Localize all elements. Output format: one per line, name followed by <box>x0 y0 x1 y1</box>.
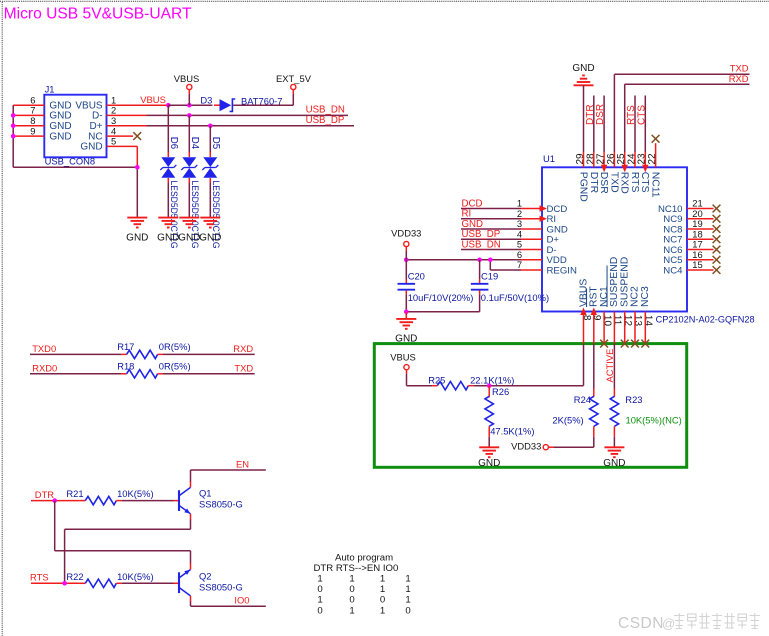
title text <box>4 6 193 23</box>
svg-text:ACTIVE: ACTIVE <box>604 349 615 383</box>
ground PGND top <box>572 63 594 85</box>
svg-text:VBUS: VBUS <box>390 352 416 363</box>
IC U1 bottom pin numbers <box>581 315 654 327</box>
TVS diode D4 LESD5D5.0CT1G <box>181 137 200 249</box>
wire VBUS to R25 <box>407 385 438 387</box>
svg-text:D4: D4 <box>189 137 200 150</box>
svg-text:8: 8 <box>581 315 592 321</box>
svg-text:VBUS: VBUS <box>140 94 166 105</box>
svg-text:0: 0 <box>317 605 322 616</box>
net label DSR pin27 <box>595 96 607 173</box>
net label RXD wire <box>158 343 255 354</box>
svg-text:C20: C20 <box>408 270 425 281</box>
node RTS junction <box>62 581 67 586</box>
svg-text:0R(5%): 0R(5%) <box>159 341 191 352</box>
net label ACTIVE pin11 <box>604 312 615 397</box>
no-connect pin12 <box>621 312 629 348</box>
net label USB_DP pin4 <box>461 229 542 240</box>
svg-text:Micro USB 5V&USB-UART: Micro USB 5V&USB-UART <box>4 6 193 23</box>
net label DTR wire <box>31 489 80 501</box>
svg-text:R25: R25 <box>428 375 445 386</box>
svg-text:TXD: TXD <box>608 172 619 193</box>
ground C20 <box>395 312 417 345</box>
resistor R21 <box>66 488 179 505</box>
svg-text:1: 1 <box>405 584 410 595</box>
svg-text:47.5K(1%): 47.5K(1%) <box>490 425 534 436</box>
wire R25 to pin8 <box>468 385 583 387</box>
svg-text:BAT760-7: BAT760-7 <box>241 96 283 107</box>
resistor R26 <box>485 386 534 447</box>
svg-text:Q2: Q2 <box>199 571 212 582</box>
wire VDD net <box>406 259 542 261</box>
no-connect U1 right pins NC4-NC10 <box>687 205 720 274</box>
svg-text:CTS: CTS <box>639 172 650 193</box>
svg-text:2: 2 <box>111 105 116 116</box>
svg-text:NC11: NC11 <box>649 172 660 198</box>
connector J1 pin names <box>49 101 103 153</box>
svg-text:NC3: NC3 <box>640 286 651 307</box>
svg-text:Auto program: Auto program <box>335 552 393 563</box>
ground D6 <box>157 218 179 244</box>
svg-text:R17: R17 <box>117 341 134 352</box>
ground D4 <box>178 218 200 244</box>
svg-text:R21: R21 <box>66 488 83 499</box>
highlight box (auto-program circuit) <box>374 344 686 468</box>
resistor R25 <box>428 375 514 390</box>
node J1 bus junctions <box>11 113 16 138</box>
svg-text:R24: R24 <box>574 394 591 405</box>
TVS diode D5 LESD5D5.0CT1G <box>202 137 221 249</box>
transistor Q2 SS8050-G <box>179 563 243 602</box>
svg-text:RTS: RTS <box>30 572 49 583</box>
svg-text:USB_DP: USB_DP <box>306 115 345 126</box>
resistor R17 <box>117 341 190 359</box>
table truth values <box>317 574 410 617</box>
svg-text:2K(5%): 2K(5%) <box>552 414 583 425</box>
svg-text:U1: U1 <box>543 153 555 164</box>
svg-text:GND: GND <box>178 233 200 244</box>
ground R26 <box>478 447 500 469</box>
svg-text:USB_DN: USB_DN <box>462 239 501 250</box>
resistor R22 <box>66 571 179 588</box>
wire VBUS to D3 <box>168 104 293 106</box>
svg-text:0R(5%): 0R(5%) <box>159 360 191 371</box>
svg-text:VBUS: VBUS <box>174 73 200 84</box>
TVS diode D6 LESD5D5.0CT1G <box>160 137 179 249</box>
ground J1 <box>126 218 148 244</box>
node VDD junctions <box>404 257 493 262</box>
node R26 tap <box>487 383 492 388</box>
watermark <box>618 613 760 632</box>
node USB_DN junction <box>187 113 192 118</box>
svg-text:SS8050-G: SS8050-G <box>199 498 243 509</box>
table auto program <box>314 552 399 573</box>
node C20 gnd junction <box>404 310 409 315</box>
svg-text:CP2102N-A02-GQFN28: CP2102N-A02-GQFN28 <box>656 314 755 325</box>
svg-text:DSR: DSR <box>598 172 609 194</box>
svg-text:SS8050-G: SS8050-G <box>199 581 243 592</box>
svg-text:GND: GND <box>199 233 221 244</box>
svg-text:R22: R22 <box>66 571 83 582</box>
wire D6 branch <box>167 105 169 217</box>
IC U1 bottom pin names <box>578 257 651 307</box>
svg-text:D3: D3 <box>200 95 212 106</box>
svg-text:1: 1 <box>380 605 385 616</box>
svg-text:1: 1 <box>380 584 385 595</box>
svg-text:9: 9 <box>591 315 602 321</box>
svg-text:CTS: CTS <box>636 105 647 125</box>
svg-text:USB_CON8: USB_CON8 <box>45 156 96 167</box>
svg-text:Q1: Q1 <box>199 488 212 499</box>
wire J1 shield to ground <box>13 166 137 168</box>
power EXT_5V terminal <box>276 73 312 105</box>
net label DTR pin28 <box>585 96 596 168</box>
svg-text:IO0: IO0 <box>234 595 249 606</box>
svg-text:10uF/10V(20%): 10uF/10V(20%) <box>408 292 474 303</box>
node shield junction <box>135 165 140 170</box>
svg-text:C19: C19 <box>481 270 498 281</box>
svg-text:7: 7 <box>30 105 35 116</box>
no-connect pin10 <box>600 312 608 348</box>
ground R23 <box>603 447 625 469</box>
svg-text:0: 0 <box>405 605 410 616</box>
svg-text:RXD: RXD <box>233 343 253 354</box>
wire J1 pin5 GND <box>107 146 138 217</box>
svg-text:REGIN: REGIN <box>547 265 577 276</box>
node VBUS terminal junction <box>187 103 192 108</box>
resistor R23 <box>610 394 682 447</box>
svg-text:@: @ <box>662 616 675 631</box>
IC U1 top pin names <box>578 172 661 202</box>
svg-text:J1: J1 <box>45 84 55 95</box>
svg-text:0: 0 <box>317 584 322 595</box>
svg-text:5: 5 <box>111 136 116 147</box>
svg-text:D-: D- <box>92 111 103 122</box>
svg-text:R18: R18 <box>117 360 134 371</box>
wire D5 branch <box>209 126 211 217</box>
svg-text:14: 14 <box>642 315 653 327</box>
power VBUS terminal <box>174 73 200 105</box>
svg-text:D6: D6 <box>168 137 179 149</box>
resistor R24 <box>552 394 598 447</box>
net USB_DP wire <box>107 115 355 126</box>
svg-text:NC4: NC4 <box>663 265 683 276</box>
net label TXD wire <box>158 362 255 373</box>
svg-text:DTR: DTR <box>35 489 54 500</box>
net label RTS pin24 <box>626 96 637 168</box>
diode D3 BAT760-7 <box>200 95 282 112</box>
svg-text:RXD: RXD <box>729 73 749 84</box>
svg-text:DTR: DTR <box>588 172 599 194</box>
IC U1 right pin numbers <box>692 198 702 271</box>
net label GND pin3 <box>461 219 542 230</box>
capacitor C20 <box>398 260 474 312</box>
wire D4 branch <box>188 115 190 217</box>
svg-text:GND: GND <box>572 63 594 74</box>
net label RI pin2 <box>461 209 547 222</box>
svg-text:R26: R26 <box>492 386 509 397</box>
wire Q1 emitter crossover <box>65 520 191 584</box>
svg-text:EXT_5V: EXT_5V <box>276 73 312 84</box>
no-connect J1 pin4 <box>107 132 142 140</box>
wire PGND pin29 <box>583 85 585 167</box>
svg-text:R23: R23 <box>625 394 642 405</box>
net label RTS wire <box>30 572 80 584</box>
svg-text:1: 1 <box>349 605 354 616</box>
no-connect NC11 pin22 <box>652 135 660 167</box>
svg-text:15: 15 <box>692 259 702 270</box>
svg-text:9: 9 <box>30 125 35 136</box>
net label VBUS row wire <box>107 94 169 105</box>
wire RST pin9 <box>591 308 597 397</box>
svg-text:D5: D5 <box>210 137 221 149</box>
svg-text:GND: GND <box>49 131 71 142</box>
svg-text:RXD0: RXD0 <box>32 362 57 373</box>
power VBUS terminal (divider) <box>390 352 416 386</box>
net label RXD0 wire <box>30 362 127 373</box>
power VDD33 terminal (R24) <box>511 440 594 451</box>
svg-text:DSR: DSR <box>595 104 606 125</box>
transistor Q1 SS8050-G <box>179 481 243 520</box>
net label USB_DN pin5 <box>461 239 542 250</box>
ground D5 <box>199 218 221 244</box>
svg-text:DTR RTS-->EN IO0: DTR RTS-->EN IO0 <box>314 563 399 574</box>
IC U1 right pin names <box>658 204 683 276</box>
svg-text:10K(5%): 10K(5%) <box>117 488 153 499</box>
power VDD33 terminal (caps) <box>391 227 421 259</box>
svg-text:10K(5%)(NC): 10K(5%)(NC) <box>626 414 682 425</box>
svg-text:GND: GND <box>49 111 71 122</box>
svg-text:1: 1 <box>405 595 410 606</box>
resistor R18 <box>117 360 190 378</box>
svg-text:GND: GND <box>157 233 179 244</box>
wire DTR to Q2 emitter <box>55 501 191 564</box>
no-connect pin14 <box>641 312 649 348</box>
svg-text:1: 1 <box>317 574 322 585</box>
svg-text:0: 0 <box>349 584 354 595</box>
svg-text:0.1uF/50V(10%): 0.1uF/50V(10%) <box>481 292 549 303</box>
svg-text:13: 13 <box>632 315 643 327</box>
svg-text:GND: GND <box>603 458 625 469</box>
svg-text:VDD33: VDD33 <box>511 440 541 451</box>
svg-text:1: 1 <box>405 574 410 585</box>
svg-text:1: 1 <box>349 574 354 585</box>
IC U1 top pin numbers <box>575 153 658 165</box>
node USB_DP junction <box>208 124 213 129</box>
net EN wire <box>191 458 266 481</box>
svg-text:RTS: RTS <box>629 172 640 193</box>
svg-text:7: 7 <box>517 259 522 270</box>
svg-text:0: 0 <box>349 595 354 606</box>
svg-text:GND: GND <box>126 233 148 244</box>
net USB_DN wire <box>107 105 349 116</box>
net IO0 wire <box>191 595 266 607</box>
svg-text:RXD: RXD <box>619 172 630 194</box>
wire REGIN jog <box>490 260 542 270</box>
connector J1 pin numbers <box>30 94 116 146</box>
svg-text:12: 12 <box>622 315 633 327</box>
svg-text:10: 10 <box>601 315 612 327</box>
net label TXD0 wire <box>30 343 127 354</box>
svg-text:11: 11 <box>612 315 623 326</box>
svg-text:10K(5%): 10K(5%) <box>117 571 153 582</box>
node DTR junction <box>52 498 57 503</box>
wire J1 left bus <box>12 105 14 167</box>
wire VBUS pin8 <box>580 308 586 386</box>
net RXD wire pin25 <box>622 73 750 173</box>
svg-text:USB_DN: USB_DN <box>306 105 345 116</box>
svg-text:1: 1 <box>380 574 385 585</box>
wire J1 left pins <box>13 105 44 136</box>
net TXD wire pin26 <box>614 63 749 168</box>
net label DCD pin1 <box>461 198 547 211</box>
svg-text:CSDN: CSDN <box>618 615 664 632</box>
svg-text:TXD0: TXD0 <box>32 343 56 354</box>
svg-text:0: 0 <box>380 595 385 606</box>
IC U1 left pin names <box>547 204 577 276</box>
no-connect pin13 <box>631 312 639 348</box>
svg-text:GND: GND <box>478 458 500 469</box>
capacitor C19 <box>406 260 549 312</box>
svg-text:GND: GND <box>80 142 102 153</box>
svg-text:22.1K(1%): 22.1K(1%) <box>470 375 514 386</box>
IC U1 body <box>542 153 755 325</box>
IC U1 left pin numbers <box>517 198 522 271</box>
node VBUS junction D6 <box>166 103 171 108</box>
svg-text:1: 1 <box>317 595 322 606</box>
svg-text:VDD33: VDD33 <box>391 227 421 238</box>
connector J1 body <box>44 84 106 167</box>
svg-text:PGND: PGND <box>578 172 589 202</box>
svg-text:EN: EN <box>236 458 249 469</box>
net label CTS pin23 <box>636 96 648 173</box>
svg-text:TXD: TXD <box>234 362 253 373</box>
